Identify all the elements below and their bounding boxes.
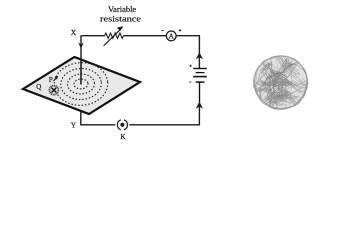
wire ammeter to top-right corner xyxy=(176,35,200,37)
current direction arrow (upward) upper right wire xyxy=(196,52,203,59)
ammeter A xyxy=(161,29,181,41)
key contact dot xyxy=(120,123,124,127)
svg-text:K: K xyxy=(120,132,126,141)
magnetic field line ring 1 xyxy=(74,79,88,90)
ammeter positive polarity label xyxy=(179,29,182,32)
label: Variable resistance xyxy=(100,4,141,23)
svg-text:P: P xyxy=(49,76,53,84)
svg-text:A: A xyxy=(169,32,175,41)
magnetic field line ring 3 xyxy=(60,67,102,100)
battery - terminal label xyxy=(189,81,191,83)
current direction arrow (upward) lower right wire xyxy=(196,102,203,109)
ammeter negative polarity label xyxy=(161,30,163,32)
wire left vertical from X corner into cardboard xyxy=(80,35,82,84)
key K (plug key) xyxy=(117,120,127,141)
conductor segment visible above cardboard centre xyxy=(80,60,82,85)
svg-text:Y: Y xyxy=(71,121,77,130)
current direction arrow (downward) on left wire xyxy=(78,43,83,49)
svg-text:resistance: resistance xyxy=(100,13,141,23)
iron filings scribble ball xyxy=(253,55,308,110)
svg-text:Q: Q xyxy=(36,83,41,91)
wire top-left segment X to resistor xyxy=(82,35,105,37)
magnetic field line ring 2 xyxy=(67,73,95,94)
magnetic field line ring 4 xyxy=(53,61,109,106)
wire resistor to ammeter xyxy=(123,35,166,37)
battery + terminal label xyxy=(189,65,191,67)
battery xyxy=(193,69,207,103)
variable resistor (rheostat) xyxy=(104,27,124,46)
svg-text:X: X xyxy=(71,28,77,37)
field direction arrow near P xyxy=(53,76,58,81)
compass needle at P xyxy=(49,86,58,95)
wire battery to top-right corner xyxy=(198,35,200,68)
cardboard (parallelogram) xyxy=(23,57,140,114)
wire left vertical below cardboard to Y corner xyxy=(81,112,116,125)
wire key to bottom-right corner xyxy=(129,103,199,125)
